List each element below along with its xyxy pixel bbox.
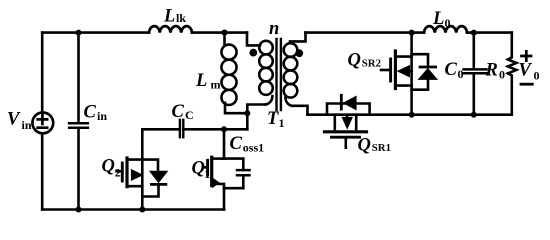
source V_in: [32, 113, 53, 134]
svg-text:SR1: SR1: [372, 142, 391, 154]
label n: [269, 19, 279, 39]
svg-text:V: V: [7, 110, 21, 130]
svg-text:R: R: [485, 61, 498, 81]
transformer T1 secondary bottom lead: [292, 106, 307, 115]
label C_0: [445, 60, 464, 81]
transistor Q1: [204, 129, 224, 209]
svg-text:C: C: [185, 108, 194, 122]
transistor Q_SR2: [381, 33, 412, 115]
transformer T1 primary polarity dot: [249, 49, 257, 57]
svg-text:0: 0: [458, 67, 464, 81]
label Q_SR1: [358, 135, 392, 155]
wire left rail: [41, 33, 44, 210]
svg-text:n: n: [269, 19, 279, 39]
body diode of Q_SR1: [327, 95, 370, 114]
transistor Q_SR1: [325, 115, 367, 148]
inductor L_m: [221, 33, 247, 114]
svg-text:Q: Q: [192, 158, 205, 178]
svg-text:1: 1: [204, 167, 210, 181]
svg-text:V: V: [519, 60, 533, 80]
capacitor C_C: [142, 120, 247, 137]
transistor Q2: [117, 129, 144, 209]
node dot Q2 source: [139, 207, 145, 213]
body diode of Q_SR2: [412, 54, 439, 89]
label C_in: [84, 103, 108, 123]
svg-text:0: 0: [445, 16, 451, 30]
svg-text:L: L: [195, 71, 207, 91]
label C_oss1: [230, 134, 265, 155]
node dot Q1 drain: [221, 126, 227, 132]
svg-text:L: L: [163, 6, 175, 26]
inductor L_0: [424, 26, 467, 33]
svg-text:in: in: [97, 109, 107, 123]
svg-text:lk: lk: [176, 11, 186, 25]
svg-text:Q: Q: [102, 157, 115, 177]
label V_in: [7, 110, 32, 133]
label V_0: [519, 60, 540, 82]
capacitor C_0: [464, 33, 487, 115]
transformer T1 primary top lead: [247, 33, 260, 46]
svg-text:Q: Q: [358, 135, 371, 155]
svg-text:C: C: [172, 102, 185, 122]
resistor R_0: [508, 33, 517, 115]
svg-text:C: C: [230, 134, 243, 154]
wire primary bottom S-curve: [265, 96, 272, 104]
transformer T1 primary winding: [259, 41, 273, 95]
svg-text:C: C: [84, 103, 97, 123]
transformer T1 core: [277, 39, 281, 110]
svg-text:T: T: [267, 109, 279, 129]
wire clamp node vertical: [247, 105, 265, 130]
capacitor C_oss1: [224, 159, 250, 189]
transformer T1 secondary polarity dot: [295, 49, 303, 57]
label Q1: [192, 158, 211, 181]
node dot Q_SR2 source: [409, 112, 415, 118]
transformer T1 secondary winding: [284, 43, 298, 97]
label T1: [267, 109, 285, 130]
svg-text:SR2: SR2: [362, 58, 381, 70]
svg-text:L: L: [432, 9, 444, 29]
svg-text:in: in: [22, 118, 32, 132]
wire bottom-right rail: [308, 113, 512, 116]
svg-text:0: 0: [534, 69, 540, 83]
label C_C: [172, 102, 194, 122]
node dot C_0 bottom: [471, 112, 477, 118]
body diode of Q2: [142, 160, 168, 197]
inductor L_lk: [149, 26, 192, 33]
transformer T1 secondary top lead: [290, 33, 306, 42]
node dot C_in bottom: [76, 207, 82, 213]
wire top-right rail: [306, 31, 512, 34]
svg-text:2: 2: [115, 165, 121, 179]
node dot primary bottom: [244, 110, 250, 116]
svg-text:1: 1: [279, 116, 285, 130]
node dot Q_SR2 drain: [409, 30, 415, 36]
capacitor C_in: [69, 33, 88, 210]
node dot C_in top: [76, 30, 82, 36]
label V_0 plus: [522, 51, 532, 60]
label L_lk: [163, 6, 186, 26]
wire bottom rail: [42, 208, 224, 211]
svg-text:0: 0: [499, 68, 505, 82]
wire top-left rail: [42, 31, 247, 34]
label L_m: [195, 71, 221, 92]
svg-text:C: C: [445, 60, 458, 80]
node dot L_m top: [221, 29, 227, 35]
transformer T1 secondary bottom S-curve: [285, 98, 292, 106]
label R_0: [485, 61, 506, 82]
svg-text:Q: Q: [348, 50, 361, 70]
svg-text:oss1: oss1: [243, 141, 264, 155]
label L_0: [432, 9, 451, 30]
node dot C_0 top: [471, 30, 477, 36]
svg-text:m: m: [211, 78, 221, 92]
label Q2: [102, 157, 121, 180]
label Q_SR2: [348, 50, 382, 70]
label V_0 minus: [521, 83, 532, 86]
